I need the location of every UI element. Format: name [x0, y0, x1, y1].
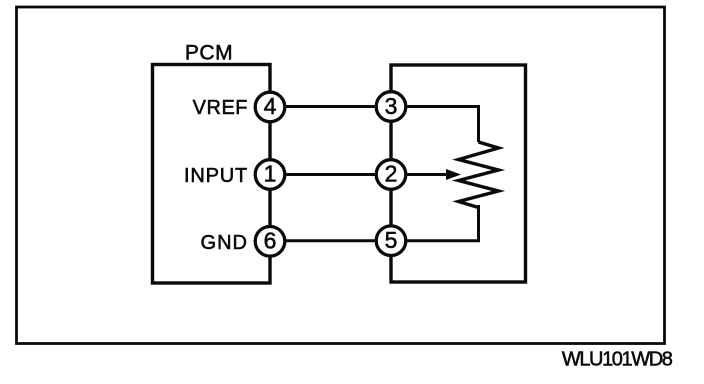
svg-text:1: 1	[264, 161, 277, 187]
wire VREF: pin 4 to pin 3 to resistor top	[270, 107, 479, 143]
svg-text:3: 3	[385, 93, 398, 119]
pin 4	[255, 92, 285, 122]
svg-text:5: 5	[385, 227, 398, 253]
svg-text:VREF: VREF	[193, 97, 248, 119]
wiper arrowhead	[446, 169, 461, 180]
PCM module box	[153, 65, 271, 284]
pin 2	[376, 160, 406, 190]
wire GND: pin 6 to pin 5 to resistor bottom	[270, 205, 479, 241]
svg-text:2: 2	[385, 161, 398, 187]
svg-text:INPUT: INPUT	[184, 165, 248, 187]
svg-text:WLU101WD8: WLU101WD8	[562, 349, 673, 371]
svg-text:PCM: PCM	[185, 42, 233, 65]
pin 3	[376, 92, 406, 122]
sensor box	[391, 65, 526, 282]
pin 5	[376, 226, 406, 256]
pin 6	[255, 227, 285, 257]
wire INPUT: pin 1 to pin 2 and wiper arrow shaft	[270, 173, 449, 176]
pin 1	[255, 160, 285, 190]
svg-text:6: 6	[264, 228, 277, 254]
svg-text:4: 4	[264, 93, 277, 119]
svg-text:GND: GND	[201, 232, 248, 254]
potentiometer resistor element	[459, 142, 499, 208]
